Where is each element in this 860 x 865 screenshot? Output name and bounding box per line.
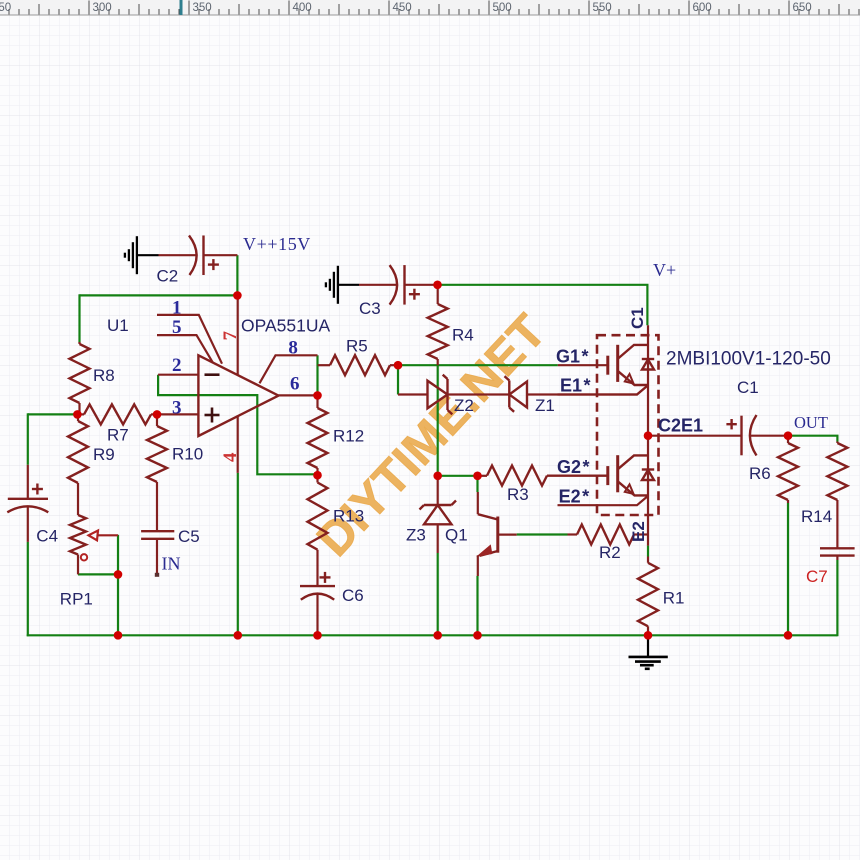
resistor R12 body — [308, 408, 328, 468]
Q1 base wire — [499, 533, 517, 535]
svg-text:C1: C1 — [628, 307, 647, 329]
node at 317.5,475.2 — [313, 471, 322, 480]
IGBT 2 gate wire — [547, 475, 608, 477]
capacitor C4 — [27, 465, 29, 499]
svg-text:400: 400 — [293, 2, 312, 14]
svg-text:R2: R2 — [599, 543, 621, 562]
op-amp pin 7 supply wire — [237, 295, 239, 374]
svg-text:450: 450 — [393, 2, 412, 14]
wire left column down to R8 — [78, 294, 80, 343]
svg-text:C5: C5 — [178, 527, 200, 546]
resistor R1 — [647, 557, 649, 563]
C5 pin end tick — [155, 573, 159, 577]
resistor R3 body — [487, 466, 547, 486]
node at 437.7,475.8 — [433, 472, 442, 481]
svg-text:250: 250 — [0, 2, 11, 14]
IGBT 1 collector lead — [618, 345, 648, 359]
svg-text:1: 1 — [172, 298, 182, 319]
IGBT module dashed box — [597, 335, 659, 515]
svg-text:Z3: Z3 — [406, 526, 426, 545]
wire C2 plate down to junction — [236, 255, 238, 295]
svg-text:E1 *: E1 * — [560, 376, 591, 396]
svg-text:4: 4 — [220, 452, 241, 462]
IGBT 2 emitter wire — [558, 496, 649, 505]
svg-text:Z1: Z1 — [535, 396, 555, 415]
IGBT 2 freewheel diode — [642, 468, 654, 470]
zener diode Z1 — [448, 393, 510, 395]
wire V++ rail top-left horizontal — [80, 294, 238, 296]
ground symbol at C2 — [136, 236, 138, 274]
svg-text:G2 *: G2 * — [557, 457, 590, 477]
resistor R2 — [568, 533, 578, 535]
resistor R9 — [77, 414, 79, 421]
node at 77.4,414.4 — [73, 410, 82, 419]
node at 317.5,635.3 — [313, 631, 322, 640]
node at 118,635.3 — [114, 631, 123, 640]
resistor R3 — [478, 475, 488, 477]
resistor R10 — [156, 414, 158, 426]
resistor R7 — [77, 413, 84, 415]
wire pin8 to pin6 vertical — [316, 355, 318, 395]
node at 118,574.4 — [114, 570, 123, 579]
IGBT 1 freewheel diode — [642, 358, 654, 360]
svg-text:C3: C3 — [359, 299, 381, 318]
svg-text:2: 2 — [172, 355, 182, 376]
svg-text:Z2: Z2 — [454, 396, 474, 415]
wire pin2 feedback loop — [158, 375, 317, 475]
svg-text:V+: V+ — [653, 260, 676, 280]
svg-text:R3: R3 — [507, 485, 529, 504]
svg-text:350: 350 — [193, 2, 212, 14]
svg-text:300: 300 — [93, 2, 112, 14]
resistor R5 body — [330, 355, 390, 375]
svg-text:8: 8 — [288, 338, 298, 359]
zener diode Z3 — [437, 476, 439, 505]
svg-text:600: 600 — [693, 2, 712, 14]
ground symbol at C3 — [337, 266, 339, 304]
wire gate net down at R4 — [437, 365, 439, 476]
wire E2 pin to R1 — [647, 546, 649, 557]
wire Z1 to emitter E1 — [527, 385, 648, 394]
wire gate net down to zeners — [397, 365, 399, 394]
capacitor C6 — [300, 585, 335, 587]
wire C4 top horizontal — [28, 413, 78, 415]
resistor R4 — [437, 285, 439, 304]
wire C4 bottom vertical — [27, 542, 29, 636]
IGBT 1 emitter lead — [618, 371, 648, 385]
node at 648,435.7 — [644, 431, 653, 440]
capacitor C3 — [359, 284, 397, 286]
svg-text:R10: R10 — [172, 445, 203, 464]
svg-text:RP1: RP1 — [60, 590, 93, 609]
RP1 wiper arrow — [89, 531, 99, 541]
svg-text:OPA551UA: OPA551UA — [241, 316, 330, 336]
earth ground symbol bottom — [647, 635, 649, 657]
svg-text:R8: R8 — [93, 366, 115, 385]
IGBT internal collector line — [647, 325, 649, 545]
op-amp pin 8 wire — [260, 355, 318, 383]
svg-text:Q1: Q1 — [445, 526, 468, 545]
capacitor C1 / C2E1 wire — [648, 435, 742, 437]
wire R6 bottom to rail — [787, 503, 789, 636]
svg-text:R5: R5 — [346, 337, 368, 356]
IGBT 2 collector lead — [618, 455, 648, 469]
svg-text:6: 6 — [290, 374, 300, 395]
resistor R4 body — [428, 304, 448, 359]
resistor R2 body — [577, 525, 634, 545]
resistor R13 body — [308, 483, 328, 550]
svg-text:R14: R14 — [801, 507, 832, 526]
svg-text:G1 *: G1 * — [556, 347, 589, 367]
IGBT 1 gate bar — [606, 356, 609, 375]
IGBT 1 gate wire — [558, 364, 608, 366]
IGBT 2 gate bar — [606, 466, 609, 485]
ruler bar — [0, 0, 860, 15]
resistor R10 body — [147, 426, 167, 482]
zener diode Z2 — [398, 393, 428, 395]
wire RP1 wiper loop — [117, 535, 119, 575]
capacitor C5 — [141, 530, 174, 532]
wire OUT to R14 — [788, 436, 837, 442]
resistor R6 — [787, 436, 789, 443]
node at 788,635.3 — [784, 631, 793, 640]
svg-text:5: 5 — [172, 317, 182, 338]
IGBT 1 emitter wire — [558, 385, 649, 394]
op-amp pin 6 output wire — [279, 394, 318, 396]
svg-text:IN: IN — [162, 554, 181, 574]
RP1 wiper end circle — [81, 554, 87, 560]
svg-text:550: 550 — [593, 2, 612, 14]
transistor Q1 — [477, 492, 479, 514]
wire pin4 down to rail — [237, 473, 239, 636]
svg-text:C2: C2 — [157, 267, 179, 286]
resistor R8 — [78, 342, 80, 344]
op-amp pin 2 wire — [158, 374, 198, 376]
svg-text:E2: E2 — [629, 521, 648, 542]
resistor R1 body — [638, 563, 658, 627]
resistor R14 body — [827, 443, 847, 500]
resistor R5 — [318, 364, 330, 366]
svg-text:R1: R1 — [663, 589, 685, 608]
IGBT 2 emitter arrow — [625, 484, 634, 494]
svg-text:R6: R6 — [749, 464, 771, 483]
resistor R6 body — [778, 443, 798, 500]
wire C4 top vertical — [27, 413, 29, 465]
op-amp U1 plus input mark — [205, 414, 220, 417]
wire Z3 to Q1 collector horizontal — [438, 475, 478, 477]
svg-text:OUT: OUT — [794, 413, 828, 432]
svg-text:C4: C4 — [36, 527, 58, 546]
op-amp pin 5 wire — [157, 335, 213, 363]
IGBT 1 body bar — [616, 345, 619, 382]
svg-text:650: 650 — [793, 2, 812, 14]
resistor R12 — [316, 395, 318, 408]
IGBT 2 body bar — [616, 455, 619, 492]
resistor R13 — [316, 475, 318, 482]
wire Q1 base to R2 — [517, 533, 568, 535]
svg-text:3: 3 — [172, 398, 182, 419]
op-amp pin 4 supply wire — [237, 416, 239, 473]
wire Q1 emitter down to rail — [476, 576, 478, 636]
wire C7 bottom to rail — [836, 560, 838, 636]
resistor R7 body — [84, 404, 151, 424]
svg-text:R12: R12 — [333, 427, 364, 446]
capacitor C2 — [159, 254, 197, 256]
svg-text:500: 500 — [493, 2, 512, 14]
svg-text:2MBI100V1-120-50: 2MBI100V1-120-50 — [666, 349, 831, 370]
IGBT 2 emitter lead — [618, 481, 648, 495]
resistor RP1 body — [70, 515, 86, 555]
node at 237.8,635.3 — [234, 631, 243, 640]
svg-text:R7: R7 — [107, 426, 129, 445]
svg-text:V++15V: V++15V — [243, 234, 311, 254]
resistor R9 body — [68, 421, 88, 483]
svg-text:C6: C6 — [342, 586, 364, 605]
node at 437.7,635.3 — [433, 631, 442, 640]
node at 237.4,295.4 — [233, 291, 242, 300]
svg-text:C2E1: C2E1 — [658, 416, 703, 436]
op-amp pin 1 wire — [157, 315, 222, 364]
capacitor C7 — [820, 547, 855, 549]
op-amp U1 minus input mark — [205, 373, 220, 376]
svg-text:U1: U1 — [107, 316, 129, 335]
node at 477.5,635.3 — [473, 631, 482, 640]
svg-text:7: 7 — [220, 331, 241, 341]
node at 398,365.2 — [394, 361, 403, 370]
svg-text:R4: R4 — [452, 326, 474, 345]
node at 788,435.7 — [784, 431, 793, 440]
op-amp U1 triangle — [198, 355, 278, 436]
Q1 emitter with arrow — [480, 551, 498, 556]
node at 477.5,475.8 — [473, 472, 482, 481]
wire V+ rail to IGBT collector — [438, 285, 648, 325]
op-amp pin 3 wire — [157, 413, 198, 415]
svg-text:C1: C1 — [737, 378, 759, 397]
node at 157,414.4 — [153, 410, 162, 419]
IGBT 1 emitter arrow — [625, 374, 634, 384]
node at 648,635.3 — [644, 631, 653, 640]
node at 437.5,284.8 — [433, 281, 442, 290]
wire gate1 net horizontal — [398, 364, 558, 366]
wire R3 to gate2 — [547, 475, 608, 477]
svg-text:R13: R13 — [333, 507, 364, 526]
ruler cursor mark — [180, 0, 183, 15]
node at 317.5,395.4 — [313, 391, 322, 400]
svg-text:R9: R9 — [93, 445, 115, 464]
resistor R8 body — [70, 344, 90, 403]
svg-text:C7: C7 — [806, 567, 828, 586]
wire Q1 collector stub — [476, 476, 478, 492]
wire Z3 bottom to rail — [437, 553, 439, 636]
resistor R14 — [836, 442, 838, 444]
svg-text:E2 *: E2 * — [559, 487, 590, 507]
wire ground rail bottom — [27, 634, 838, 636]
